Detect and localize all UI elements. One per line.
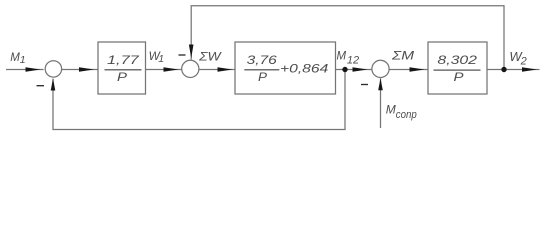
arrow into block U3 — [410, 67, 425, 72]
svg-text:ΣW: ΣW — [198, 50, 223, 64]
block U2 3,76/P+0,864 — [235, 42, 336, 94]
svg-text:Mconp: Mconp — [386, 103, 417, 121]
svg-text:1,77: 1,77 — [107, 53, 140, 67]
wire feedback top from W2 node to summer SW — [191, 6, 504, 70]
svg-text:P: P — [454, 70, 465, 84]
arrow up into summer1 bottom — [51, 79, 56, 91]
arrow into summer SM — [353, 67, 368, 72]
arrow down into summer SW top — [189, 45, 194, 59]
wire output W2 — [487, 69, 540, 71]
fraction bar U2 — [244, 69, 279, 70]
wire feedback bottom from M12 node to summer1 — [53, 70, 345, 130]
node dot W2 — [501, 67, 506, 72]
summer1 circle — [45, 61, 61, 77]
wire block W12 to summer SM — [336, 69, 372, 71]
fraction bar U3 — [434, 70, 481, 71]
arrow into summer SW — [164, 67, 179, 72]
arrow into summer1 — [26, 67, 41, 72]
arrow output end — [522, 67, 537, 72]
minus sign at summer SM — [361, 84, 368, 86]
svg-text:ΣM: ΣM — [391, 49, 415, 63]
svg-text:W1: W1 — [149, 49, 164, 65]
fraction bar U1 — [105, 69, 142, 70]
wire block W1 to summer SW — [146, 69, 182, 71]
summer SW circle — [182, 60, 199, 77]
svg-text:3,76: 3,76 — [247, 53, 277, 67]
svg-text:+0,864: +0,864 — [280, 61, 329, 75]
minus sign at summer1 — [37, 85, 45, 87]
svg-text:P: P — [258, 70, 268, 84]
node dot M12 — [342, 67, 347, 72]
block U3 8,302/P — [428, 42, 487, 94]
wire input M1 — [6, 69, 44, 71]
arrow into block U1 — [79, 67, 94, 72]
arrow into block U2 — [218, 67, 233, 72]
summer SM circle — [372, 60, 389, 77]
wire summer SW to block W12 — [199, 69, 235, 71]
svg-text:M1: M1 — [10, 52, 25, 66]
svg-text:M12: M12 — [337, 51, 360, 67]
block U1 1,77/P — [98, 42, 146, 94]
wire summer1 to block W1 — [61, 69, 98, 71]
minus sign at summer SW — [179, 54, 186, 56]
wire summer SM to block W2 — [389, 69, 428, 71]
wire Mconp input — [380, 78, 382, 128]
svg-text:P: P — [117, 70, 128, 84]
arrow up into summer SM bottom — [378, 78, 383, 90]
svg-text:W2: W2 — [509, 49, 526, 68]
svg-text:8,302: 8,302 — [437, 53, 477, 67]
